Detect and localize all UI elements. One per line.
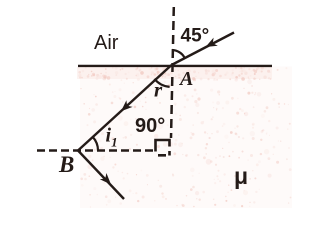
incident ray arrowhead — [206, 38, 218, 47]
45 degree arc at A — [172, 50, 185, 58]
angle i1 arc at B — [93, 137, 98, 150]
ray beyond B — [78, 151, 124, 200]
beyond-B ray arrowhead — [100, 173, 111, 185]
incident ray — [172, 33, 235, 66]
refracted ray arrowhead — [121, 100, 133, 111]
svg-text:45°: 45° — [181, 25, 210, 46]
svg-text:90°: 90° — [135, 115, 165, 137]
svg-text:Air: Air — [94, 32, 119, 54]
horizontal dashed line through B — [37, 149, 154, 151]
svg-text:μ: μ — [234, 163, 248, 189]
medium region (denser medium, shaded) — [77, 66, 292, 208]
normal (vertical dashed line) — [171, 7, 174, 138]
refraction angle arc r — [154, 79, 169, 87]
interface line (air/medium boundary) — [78, 65, 272, 67]
svg-text:B: B — [58, 152, 74, 177]
svg-text:A: A — [178, 68, 193, 90]
refracted ray A to B — [78, 65, 172, 151]
right-angle marker square — [156, 140, 170, 156]
